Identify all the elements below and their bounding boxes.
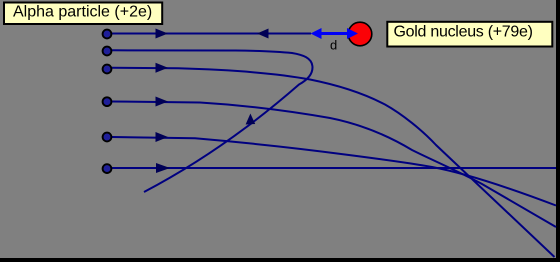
- gold nucleus: [348, 22, 372, 46]
- alpha particle dot 1: [103, 30, 112, 39]
- arrowhead T3: [156, 63, 169, 73]
- alpha particle dot 6: [103, 164, 112, 173]
- arrowhead T6: [156, 163, 170, 173]
- wire trajectory T2 hairpin loop: [112, 50, 312, 192]
- wire trajectory T5: [112, 137, 556, 206]
- alpha particle dot 5: [103, 133, 112, 142]
- wire trajectory T4: [112, 102, 556, 228]
- wire trajectory T1 (head-on): [112, 33, 311, 35]
- right black band: [556, 0, 560, 262]
- svg-text:Gold nucleus (+79e): Gold nucleus (+79e): [394, 24, 533, 41]
- arrowhead T5: [156, 132, 169, 142]
- wire trajectory T3: [112, 68, 555, 257]
- svg-text:d: d: [330, 38, 337, 53]
- arrowhead T1 forward: [156, 29, 169, 39]
- alpha particle dot 2: [103, 47, 112, 56]
- arrowhead T4: [156, 97, 169, 107]
- svg-text:Alpha particle (+2e): Alpha particle (+2e): [13, 4, 152, 21]
- arrowhead T1 reflected: [257, 29, 269, 39]
- distance d arrow (double headed, bright blue): [320, 32, 348, 35]
- wire trajectory T6 (undeflected, bottom): [112, 167, 556, 169]
- arrowhead T2 exit: [246, 114, 256, 125]
- alpha particle dot 3: [103, 65, 112, 74]
- bottom black band: [0, 258, 560, 262]
- alpha particle dot 4: [103, 97, 112, 106]
- label box: Gold nucleus (+79e): [387, 22, 552, 47]
- label box: Alpha particle (+2e): [4, 3, 162, 25]
